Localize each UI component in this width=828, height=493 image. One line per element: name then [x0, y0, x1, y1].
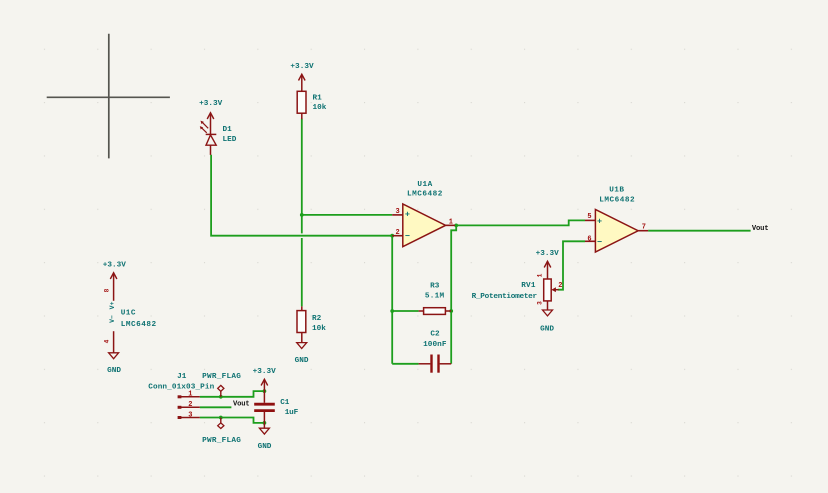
- svg-text:GND: GND: [107, 367, 121, 375]
- svg-text:10k: 10k: [313, 104, 327, 112]
- svg-text:V+: V+: [109, 302, 116, 310]
- svg-text:U1C: U1C: [121, 310, 136, 318]
- svg-text:Vout: Vout: [752, 225, 769, 233]
- svg-text:1: 1: [449, 219, 453, 227]
- svg-text:−: −: [405, 231, 410, 241]
- svg-text:V−: V−: [109, 315, 116, 323]
- svg-text:2: 2: [395, 229, 399, 237]
- svg-text:2: 2: [558, 282, 562, 290]
- svg-text:5.1M: 5.1M: [425, 292, 445, 300]
- svg-text:4: 4: [104, 339, 111, 343]
- svg-text:7: 7: [642, 223, 646, 231]
- svg-text:Conn_01x03_Pin: Conn_01x03_Pin: [148, 383, 214, 391]
- svg-text:C2: C2: [430, 330, 440, 338]
- svg-text:R1: R1: [313, 95, 323, 103]
- svg-text:1: 1: [188, 391, 192, 399]
- svg-text:1: 1: [536, 273, 543, 277]
- svg-text:3: 3: [188, 411, 192, 419]
- svg-text:6: 6: [587, 236, 591, 244]
- svg-text:+3.3V: +3.3V: [253, 368, 277, 376]
- svg-text:100nF: 100nF: [423, 341, 447, 349]
- svg-text:+: +: [597, 216, 602, 226]
- svg-text:GND: GND: [295, 357, 309, 365]
- svg-text:+3.3V: +3.3V: [290, 63, 314, 71]
- svg-text:R_Potentiometer: R_Potentiometer: [472, 293, 538, 301]
- svg-text:U1B: U1B: [609, 187, 624, 195]
- svg-text:Vout: Vout: [233, 400, 250, 408]
- svg-text:LMC6482: LMC6482: [407, 191, 443, 199]
- svg-text:5: 5: [587, 213, 591, 221]
- svg-text:+3.3V: +3.3V: [103, 262, 127, 270]
- svg-text:LMC6482: LMC6482: [599, 196, 635, 204]
- svg-text:R3: R3: [430, 282, 440, 290]
- svg-text:+: +: [405, 210, 410, 220]
- svg-text:U1A: U1A: [417, 181, 432, 189]
- svg-text:3: 3: [395, 208, 399, 216]
- svg-text:PWR_FLAG: PWR_FLAG: [202, 437, 241, 445]
- svg-text:LED: LED: [223, 136, 237, 144]
- svg-text:PWR_FLAG: PWR_FLAG: [202, 373, 241, 381]
- svg-text:LMC6482: LMC6482: [121, 321, 157, 329]
- svg-text:C1: C1: [280, 399, 290, 407]
- svg-text:8: 8: [104, 288, 111, 292]
- svg-text:J1: J1: [177, 373, 187, 381]
- svg-text:R2: R2: [312, 315, 322, 323]
- svg-text:3: 3: [536, 301, 543, 305]
- svg-text:2: 2: [188, 401, 192, 409]
- svg-text:GND: GND: [258, 443, 272, 451]
- svg-text:+3.3V: +3.3V: [536, 250, 560, 258]
- svg-text:D1: D1: [223, 126, 233, 134]
- svg-text:RV1: RV1: [521, 282, 536, 290]
- svg-text:GND: GND: [540, 325, 554, 333]
- svg-text:−: −: [597, 238, 602, 248]
- svg-text:+3.3V: +3.3V: [199, 100, 223, 108]
- svg-text:10k: 10k: [312, 325, 326, 333]
- svg-text:1uF: 1uF: [285, 409, 299, 417]
